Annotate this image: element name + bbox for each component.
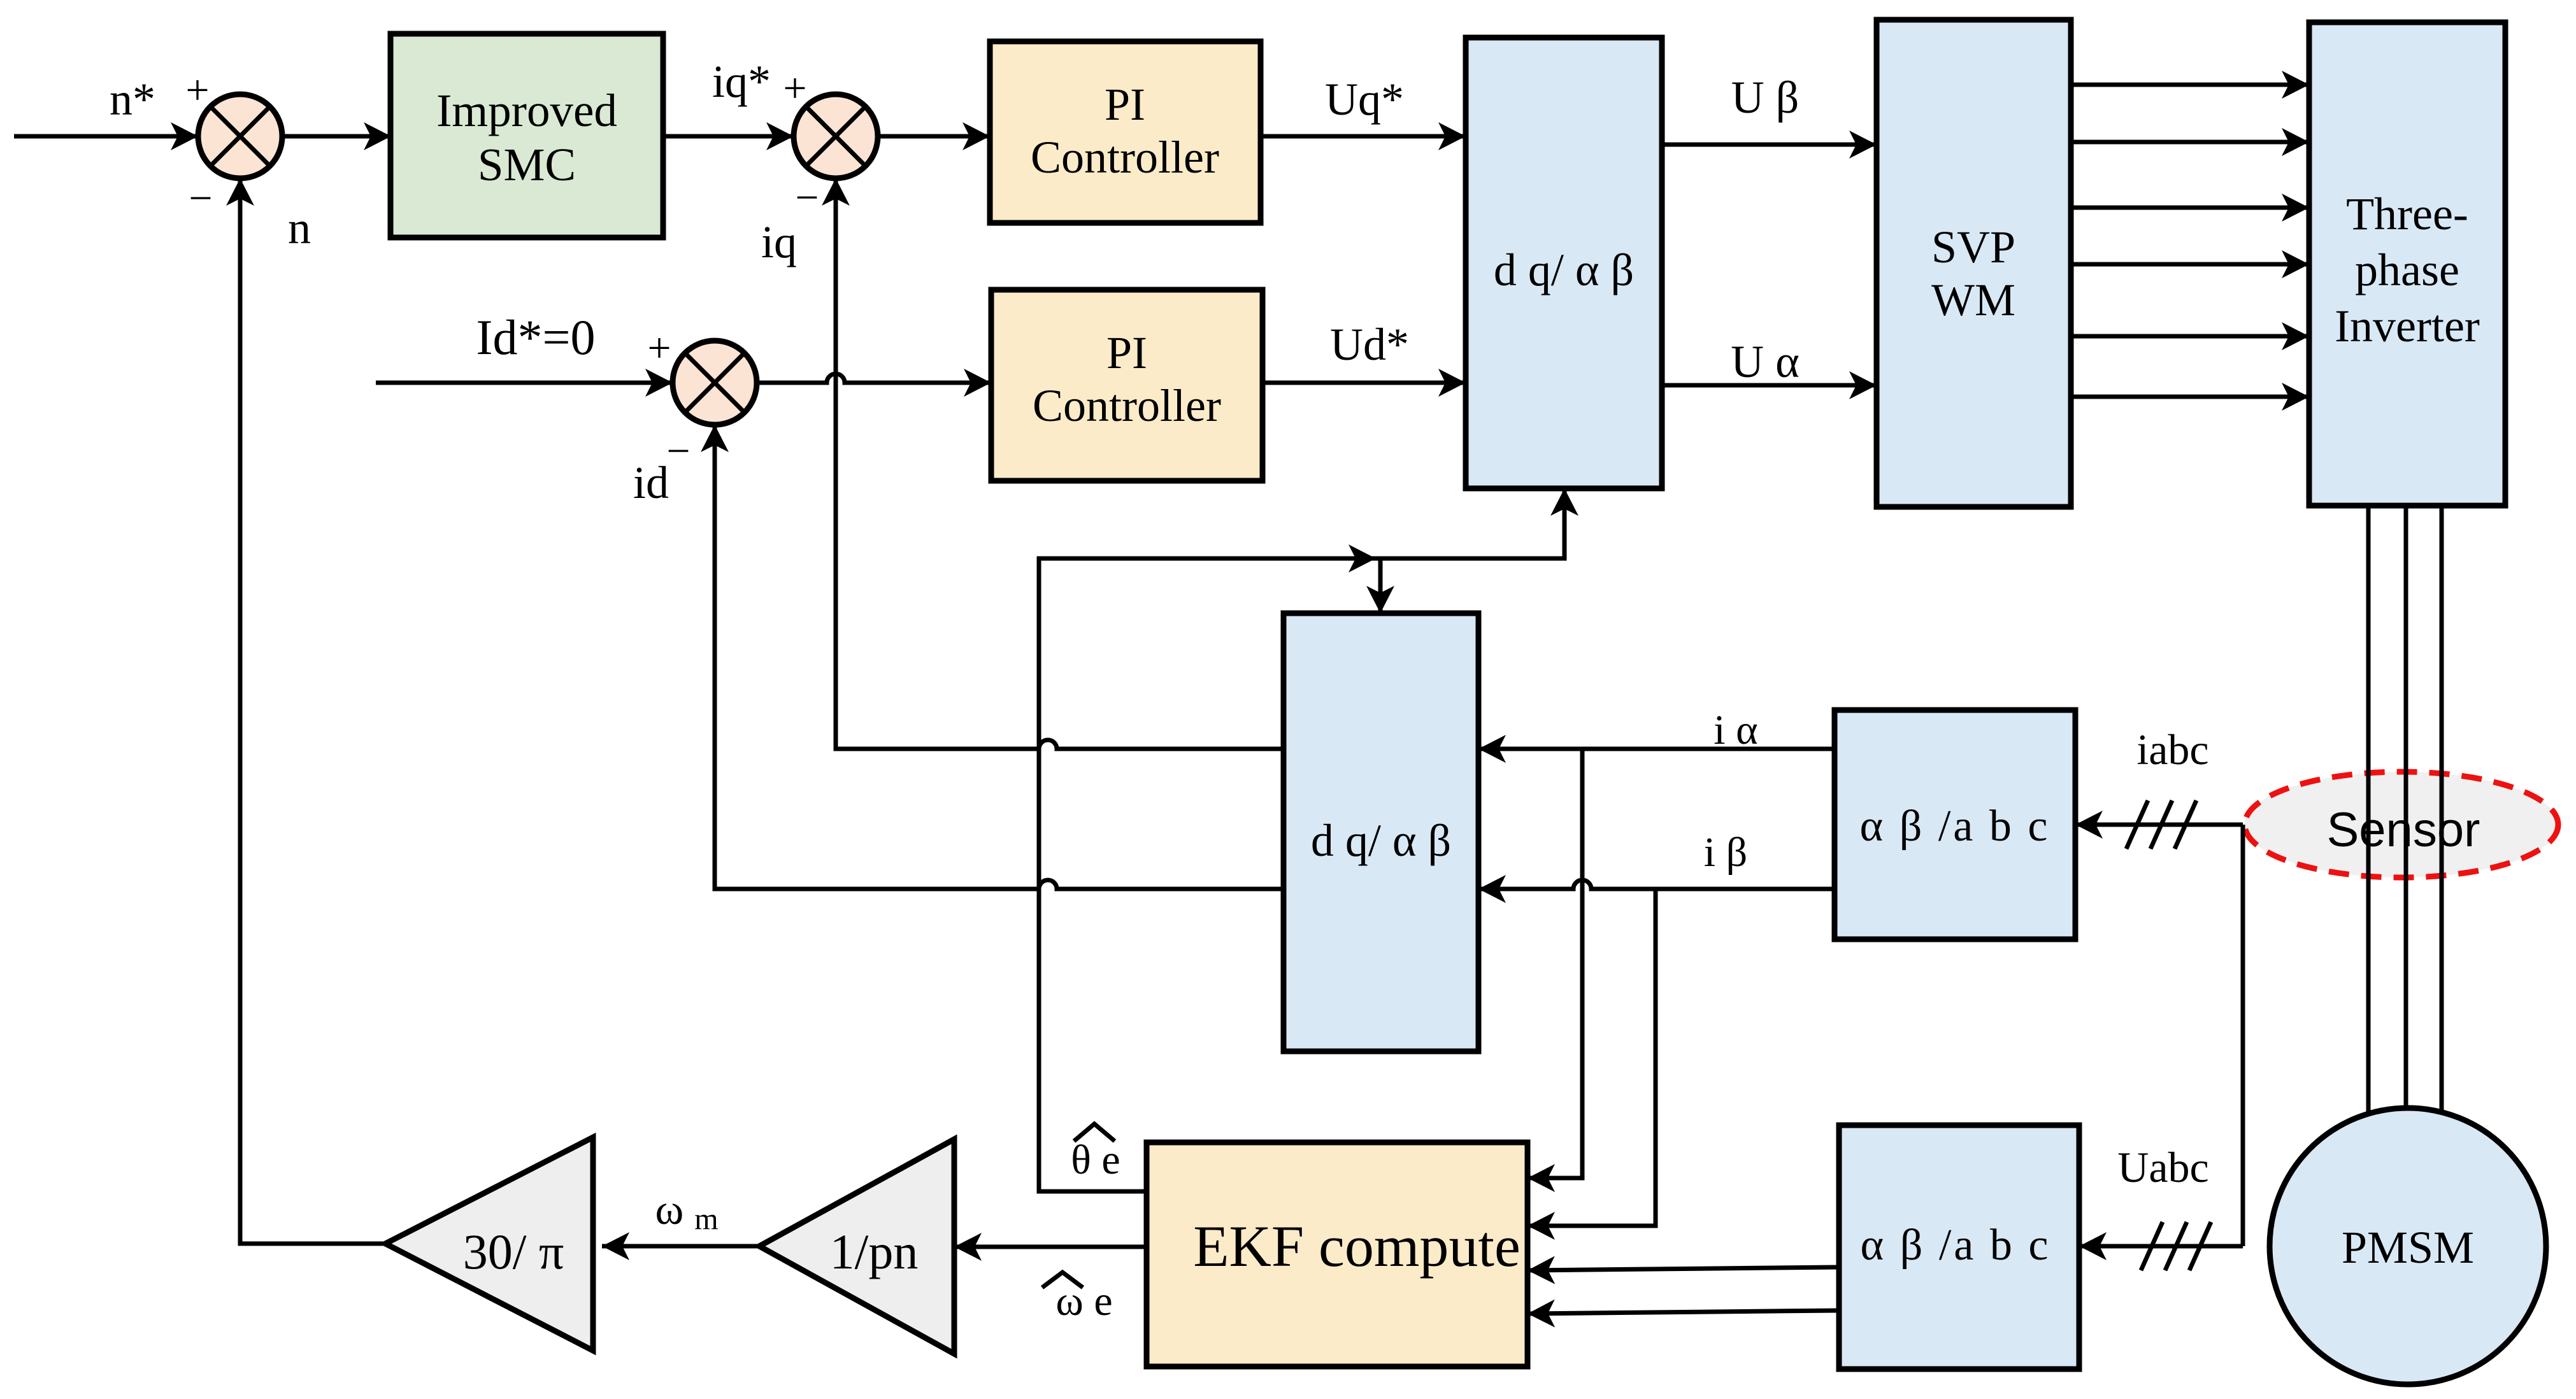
wire n feedback 30/pi to S1 xyxy=(240,178,385,1244)
svg-text:ω m: ω m xyxy=(655,1185,718,1236)
wire Ud* PI2 to dq1 xyxy=(1263,381,1466,385)
svg-text:Controller: Controller xyxy=(1031,132,1219,183)
block PMSM motor xyxy=(2270,1108,2546,1384)
svg-text:EKF compute: EKF compute xyxy=(1193,1214,1521,1279)
svg-text:−: − xyxy=(189,175,212,222)
svg-text:i β: i β xyxy=(1704,829,1747,876)
svg-text:n*: n* xyxy=(110,74,155,125)
wire sensor tap vertical xyxy=(2241,825,2245,1246)
svg-text:1/pn: 1/pn xyxy=(830,1224,919,1279)
svg-text:Sensor: Sensor xyxy=(2327,803,2480,857)
svg-text:+: + xyxy=(647,325,671,371)
wire theta e branch into dq2 xyxy=(1378,558,1383,613)
svg-text:Controller: Controller xyxy=(1033,380,1221,431)
svg-text:Uabc: Uabc xyxy=(2117,1143,2208,1191)
summing junction S3 xyxy=(673,341,757,425)
svg-text:+: + xyxy=(783,65,806,111)
gain block 30/pi xyxy=(385,1137,593,1351)
block dq/ab transform 1 xyxy=(1466,38,1662,488)
wire S3 to PI2 with hop over iq line xyxy=(757,374,991,383)
svg-text:Uq*: Uq* xyxy=(1325,74,1404,125)
svg-text:Improved: Improved xyxy=(436,85,617,136)
node omega e label xyxy=(1042,1272,1113,1324)
svg-text:+: + xyxy=(185,67,209,113)
wire omega m 1/pn to 30/pi xyxy=(602,1244,759,1249)
svg-text:d q/ α β: d q/ α β xyxy=(1494,245,1634,295)
wire gate signal 4 xyxy=(2071,262,2309,267)
node theta e label xyxy=(1071,1124,1120,1183)
svg-text:d q/ α β: d q/ α β xyxy=(1311,815,1451,866)
svg-text:SMC: SMC xyxy=(478,139,576,190)
svg-text:PMSM: PMSM xyxy=(2342,1222,2474,1273)
summing junction S1 xyxy=(198,94,282,178)
summing junction S2 xyxy=(794,94,878,178)
svg-text:iq: iq xyxy=(761,217,797,267)
Uabc slash marks xyxy=(2141,1222,2211,1270)
gain block 1/pn xyxy=(759,1139,954,1354)
block ab/abc transform 2 xyxy=(1839,1125,2079,1369)
block dq/ab transform 2 xyxy=(1284,613,1478,1051)
svg-text:PI: PI xyxy=(1105,79,1145,130)
wire U alpha dq1 to SVPWM xyxy=(1662,383,1877,388)
wire i alpha abc1 to dq2 xyxy=(1478,747,1835,751)
wire S1 to SMC xyxy=(282,134,391,139)
svg-text:Ud*: Ud* xyxy=(1330,319,1409,370)
wire iq feedback dq2 to S2 with hop over theta line xyxy=(836,178,1284,749)
block SVPWM xyxy=(1877,20,2071,507)
wire n* input xyxy=(14,134,198,139)
svg-text:SVP: SVP xyxy=(1931,222,2015,273)
block Improved SMC xyxy=(390,34,663,238)
block ab/abc transform 1 xyxy=(1835,710,2075,939)
wire theta e flow arrow xyxy=(1325,557,1376,561)
svg-text:iq*: iq* xyxy=(712,56,771,107)
wire SMC to S2 xyxy=(663,134,794,139)
wire gate signal 6 xyxy=(2071,395,2309,399)
svg-text:θ e: θ e xyxy=(1071,1137,1120,1183)
wire S2 to PI1 xyxy=(878,134,990,139)
svg-text:−: − xyxy=(666,428,690,474)
wire Id*=0 input xyxy=(376,381,673,385)
wire i beta branch to EKF xyxy=(1528,889,1656,1226)
wire gate signal 1 xyxy=(2071,83,2309,87)
wire Uq* PI1 to dq1 xyxy=(1261,134,1466,139)
svg-text:−: − xyxy=(795,174,819,221)
svg-text:ω e: ω e xyxy=(1055,1278,1112,1324)
block PI Controller 2 xyxy=(991,290,1263,481)
wire phase a xyxy=(2366,506,2371,1121)
svg-text:phase: phase xyxy=(2355,245,2459,295)
wire gate signal 3 xyxy=(2071,206,2309,210)
wire phase b xyxy=(2404,506,2408,1121)
block EKF compute xyxy=(1147,1142,1528,1367)
sensor ellipse xyxy=(2245,772,2558,877)
svg-text:α β /a b c: α β /a b c xyxy=(1861,1221,2051,1270)
wire U beta dq1 to SVPWM xyxy=(1662,143,1877,147)
svg-text:U α: U α xyxy=(1731,336,1800,387)
svg-text:Three-: Three- xyxy=(2346,188,2468,239)
wire i alpha branch to EKF xyxy=(1528,749,1582,1178)
wire gate signal 2 xyxy=(2071,140,2309,145)
iabc slash marks xyxy=(2126,800,2196,849)
block Three-phase Inverter xyxy=(2309,22,2505,506)
svg-text:iabc: iabc xyxy=(2136,725,2208,774)
svg-text:Inverter: Inverter xyxy=(2335,301,2480,352)
wire gate signal 5 xyxy=(2071,334,2309,339)
svg-text:30/ π: 30/ π xyxy=(463,1224,564,1279)
svg-text:PI: PI xyxy=(1106,327,1147,378)
wire i beta abc1 to dq2 with hop xyxy=(1478,880,1835,889)
wire omega e EKF to 1/pn xyxy=(954,1245,1147,1249)
block PI Controller 1 xyxy=(990,41,1261,223)
svg-text:Id*=0: Id*=0 xyxy=(476,309,596,365)
svg-text:α β /a b c: α β /a b c xyxy=(1860,802,2050,851)
wire iabc sensor to abc1 xyxy=(2075,823,2243,827)
wire U beta abc2 to EKF xyxy=(1528,1310,1838,1314)
wire U alpha abc2 to EKF xyxy=(1528,1267,1838,1270)
svg-text:i α: i α xyxy=(1714,707,1757,753)
svg-text:id: id xyxy=(633,457,669,508)
wire Uabc to abc2 xyxy=(2079,1244,2243,1249)
svg-text:U β: U β xyxy=(1731,72,1800,123)
wire phase c xyxy=(2440,506,2444,1121)
svg-text:n: n xyxy=(288,202,311,253)
wire theta e EKF to dq1 and dq2 xyxy=(1039,488,1564,1191)
wire id feedback dq2 to S3 with hop over theta line xyxy=(715,425,1284,889)
svg-text:WM: WM xyxy=(1931,274,2015,325)
